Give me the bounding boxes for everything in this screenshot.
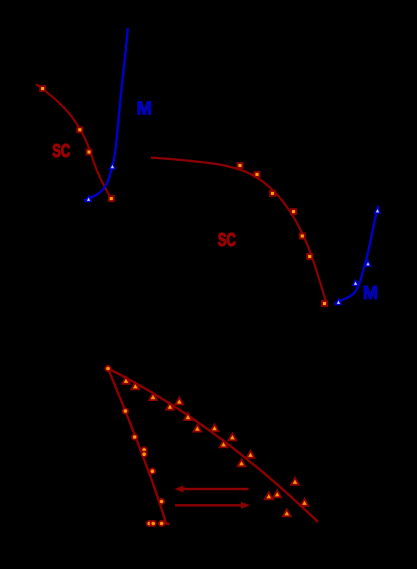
right-pointing arrow — [175, 502, 250, 509]
svg-text:M: M — [137, 98, 152, 119]
svg-text:M: M — [363, 282, 378, 303]
panel-b SC data point squares — [238, 163, 328, 306]
panel-b SC phase boundary curve (red) — [151, 158, 327, 306]
panel-c circle data points — [105, 366, 164, 526]
panel-a M phase boundary curve (blue) — [84, 28, 128, 201]
panel-b M phase boundary curve (blue) — [335, 206, 379, 304]
panel-a M data point triangles — [86, 163, 115, 201]
panel-c left boundary line — [108, 369, 170, 525]
panel-c triangle data points — [122, 377, 308, 517]
svg-text:SC: SC — [52, 140, 70, 161]
panel-a SC data point squares — [40, 86, 114, 201]
svg-text:SC: SC — [218, 229, 236, 250]
panel-c right boundary line — [108, 369, 318, 523]
left-pointing arrow — [174, 486, 248, 493]
panel-b M data point triangles — [336, 208, 381, 305]
panel-a SC phase boundary curve (red) — [36, 84, 111, 199]
